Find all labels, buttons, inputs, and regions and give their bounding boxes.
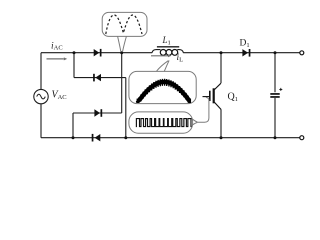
svg-text:L1: L1 — [162, 35, 171, 47]
svg-text:Q1: Q1 — [228, 91, 238, 103]
svg-text:iAC: iAC — [51, 41, 63, 51]
svg-text:iL: iL — [177, 53, 184, 64]
svg-text:D1: D1 — [240, 38, 250, 49]
svg-text:VAC: VAC — [52, 89, 67, 101]
